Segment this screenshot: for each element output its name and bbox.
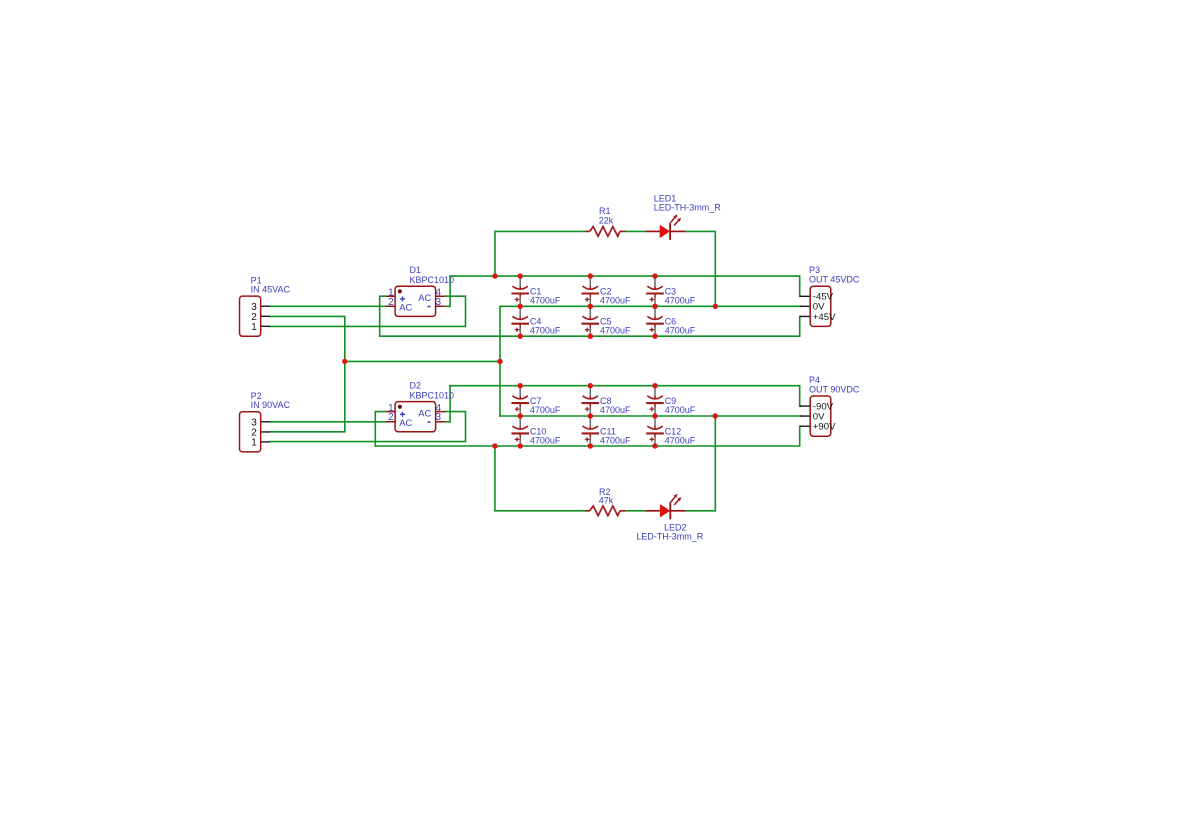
junction at R1 tap on - bus xyxy=(492,273,497,278)
junction C2/C5 xyxy=(588,304,593,309)
wire D1 pin4 to P1 pin1 xyxy=(270,296,466,326)
junction 0V row right xyxy=(497,359,502,364)
capacitor C8 xyxy=(582,386,600,416)
svg-text:OUT 45VDC: OUT 45VDC xyxy=(809,274,860,284)
junction 0V row left xyxy=(342,359,347,364)
wire R2 branch left xyxy=(495,446,586,511)
svg-text:4700uF: 4700uF xyxy=(530,435,561,445)
svg-text:KBPC1010: KBPC1010 xyxy=(410,275,455,285)
svg-text:4700uF: 4700uF xyxy=(600,405,631,415)
wire D1 pin1 to +bus xyxy=(380,296,386,336)
wire LED2 to 0V bus xyxy=(685,416,715,511)
capacitor C3 xyxy=(646,276,664,306)
LED LED2 xyxy=(646,494,685,520)
svg-text:OUT 90VDC: OUT 90VDC xyxy=(809,384,860,394)
junction C12 bottom xyxy=(652,443,657,448)
junction C1 top xyxy=(518,273,523,278)
wire D2 pin1 to +bus xyxy=(375,412,386,446)
wire R2 to LED2 xyxy=(625,510,646,512)
junction C11 bottom xyxy=(588,443,593,448)
wire R1 branch left xyxy=(495,231,586,276)
wire 0V interconnect row xyxy=(345,360,500,362)
junction C4 bottom xyxy=(518,334,523,339)
capacitor C4 xyxy=(511,306,529,336)
svg-text:KBPC1010: KBPC1010 xyxy=(410,390,455,400)
svg-text:4700uF: 4700uF xyxy=(530,326,561,336)
svg-text:LED-TH-3mm_R: LED-TH-3mm_R xyxy=(654,202,722,212)
capacitor C2 xyxy=(582,276,600,306)
svg-text:IN 45VAC: IN 45VAC xyxy=(251,285,291,295)
svg-text:4700uF: 4700uF xyxy=(600,295,631,305)
connector P3 xyxy=(800,286,831,326)
LED LED1 xyxy=(646,214,685,240)
wire 0V vertical leg xyxy=(499,306,501,416)
junction C7 top xyxy=(518,383,523,388)
svg-text:+45V: +45V xyxy=(813,312,836,323)
wire top bank + bus xyxy=(380,317,801,337)
junction C3/C6 xyxy=(652,304,657,309)
connector P1 xyxy=(240,296,271,336)
connector P2 xyxy=(240,412,271,452)
capacitor C6 xyxy=(646,306,664,336)
svg-text:LED-TH-3mm_R: LED-TH-3mm_R xyxy=(636,531,704,541)
junction C5 bottom xyxy=(588,334,593,339)
junction C9/C12 xyxy=(652,413,657,418)
junction C9 top xyxy=(652,383,657,388)
junction R2 tap on + bus xyxy=(492,443,497,448)
junction C8/C11 xyxy=(588,413,593,418)
svg-text:22k: 22k xyxy=(599,215,614,225)
wire bottom bank 0V bus xyxy=(500,415,801,417)
bridge rectifier D1 xyxy=(386,286,445,316)
svg-text:4700uF: 4700uF xyxy=(600,326,631,336)
wire R1 to LED1 xyxy=(625,230,646,232)
wire D2 pin4 to P2 pin1 xyxy=(270,412,466,442)
svg-text:4700uF: 4700uF xyxy=(530,405,561,415)
junction C7/C10 xyxy=(518,413,523,418)
junction C2 top xyxy=(588,273,593,278)
svg-text:P4: P4 xyxy=(809,375,820,385)
junction C6 bottom xyxy=(652,334,657,339)
svg-text:D2: D2 xyxy=(410,381,422,391)
svg-text:4700uF: 4700uF xyxy=(665,435,696,445)
wire bottom bank + bus xyxy=(375,426,801,446)
capacitor C12 xyxy=(646,416,664,446)
junction LED1 return on 0V bus xyxy=(713,304,718,309)
junction LED2 return on 0V bus xyxy=(713,413,718,418)
junction C8 top xyxy=(588,383,593,388)
wire D1 pin3 riser xyxy=(445,276,450,306)
wire P2 pin3 to D2 pin2 xyxy=(270,421,386,423)
capacitor C11 xyxy=(582,416,600,446)
capacitor C10 xyxy=(511,416,529,446)
junction C1/C4 xyxy=(518,304,523,309)
svg-text:4700uF: 4700uF xyxy=(665,326,696,336)
wire LED1 to 0V bus xyxy=(685,231,715,306)
wire bottom bank - bus xyxy=(450,386,801,406)
capacitor C9 xyxy=(646,386,664,416)
svg-text:4700uF: 4700uF xyxy=(530,295,561,305)
wire D2 pin3 riser xyxy=(445,386,450,422)
resistor R2 xyxy=(586,506,626,516)
svg-text:+90V: +90V xyxy=(813,422,836,433)
junction C10 bottom xyxy=(518,443,523,448)
wire top bank - bus xyxy=(450,276,801,296)
resistor R1 xyxy=(586,227,626,237)
svg-text:4700uF: 4700uF xyxy=(600,435,631,445)
wire top bank 0V bus xyxy=(500,305,801,307)
capacitor C1 xyxy=(511,276,529,306)
connector P4 xyxy=(800,396,831,436)
wire P1 pin2 down-leg to 0V row xyxy=(270,316,345,361)
svg-text:4700uF: 4700uF xyxy=(665,295,696,305)
svg-text:D1: D1 xyxy=(410,265,422,275)
wire P1 pin3 to D1 pin2 xyxy=(270,305,386,307)
capacitor C7 xyxy=(511,386,529,416)
svg-text:IN 90VAC: IN 90VAC xyxy=(251,400,291,410)
capacitor C5 xyxy=(582,306,600,336)
bridge rectifier D2 xyxy=(386,402,445,432)
junction C3 top xyxy=(652,273,657,278)
svg-text:47k: 47k xyxy=(599,495,614,505)
wire 0V row to P2 pin2 xyxy=(270,361,345,431)
svg-text:4700uF: 4700uF xyxy=(665,405,696,415)
